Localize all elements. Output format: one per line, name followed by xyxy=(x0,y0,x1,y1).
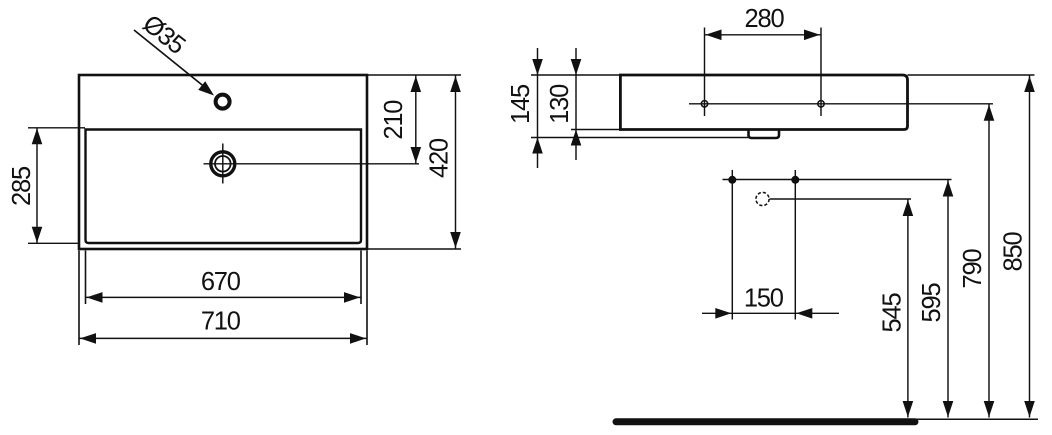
dim 420 line xyxy=(455,75,457,249)
svg-text:850: 850 xyxy=(1000,232,1028,272)
svg-text:210: 210 xyxy=(380,100,408,140)
dim 710 arrow left xyxy=(80,333,96,344)
svg-text:545: 545 xyxy=(879,293,907,333)
extension top left of profile xyxy=(531,74,620,76)
leader arrowhead xyxy=(198,81,214,95)
dim 850 arrow down xyxy=(1024,401,1035,417)
drain inner circle xyxy=(215,156,231,172)
dim 145 arrow top xyxy=(532,59,543,75)
dim 710 extension left xyxy=(78,251,80,346)
dim 710 extension right xyxy=(366,251,368,346)
dim 595 line xyxy=(947,180,949,418)
dim 710 arrow right xyxy=(350,333,366,344)
dim 280 arrow right xyxy=(804,30,820,41)
mounting hole left xyxy=(701,101,707,107)
dim 130 arrow top xyxy=(571,59,582,75)
svg-text:595: 595 xyxy=(918,283,946,323)
dim 790 arrow down xyxy=(984,401,995,417)
dim 545 line xyxy=(907,199,909,418)
svg-text:285: 285 xyxy=(8,166,36,206)
basin profile xyxy=(620,75,907,130)
dim 130 line xyxy=(575,48,577,160)
dim 280 arrow left xyxy=(706,30,722,41)
dim 790 line xyxy=(988,104,990,418)
dim 595 arrow down xyxy=(943,401,954,417)
dim 280 extension left xyxy=(704,28,706,117)
drain outer circle xyxy=(211,152,235,176)
dim 545 arrow down xyxy=(903,401,914,417)
dim 150 arrow right xyxy=(796,308,812,319)
dim 420 arrow down xyxy=(450,232,461,248)
dim 545 arrow up xyxy=(903,200,914,216)
supply drop line left xyxy=(731,170,733,320)
dim 850 arrow up xyxy=(1024,76,1035,92)
extension tab bottom 145 xyxy=(531,137,748,139)
supply dot left xyxy=(728,176,736,184)
dim 145 line xyxy=(537,48,539,168)
dim 710 line xyxy=(79,337,367,339)
dim 595 arrow up xyxy=(943,181,954,197)
dim 670 arrow right xyxy=(344,292,360,303)
extension bottom right of left view xyxy=(367,248,461,250)
extension top right of left view xyxy=(367,74,461,76)
svg-text:150: 150 xyxy=(744,285,784,313)
dim 145 arrow bottom xyxy=(532,138,543,154)
supply level line xyxy=(723,179,952,181)
waste level line xyxy=(770,198,912,200)
floor line thin xyxy=(914,418,1038,420)
waste outlet dashed circle xyxy=(756,192,769,205)
dim 670 extension left xyxy=(85,251,87,305)
drain tab xyxy=(749,130,780,139)
svg-text:790: 790 xyxy=(959,249,987,289)
dim 790 arrow up xyxy=(984,105,995,121)
dim 285 extension bottom xyxy=(28,242,79,244)
svg-text:710: 710 xyxy=(201,307,241,335)
dim 670 extension right xyxy=(360,251,362,305)
dim 130 arrow bottom xyxy=(571,130,582,146)
dim 210 arrow down xyxy=(411,147,422,163)
extension underside 130 xyxy=(571,129,620,131)
dim 280 extension right xyxy=(820,28,822,117)
extension top right of profile xyxy=(908,74,1035,76)
dim 210 line xyxy=(415,75,417,164)
dim 280 line xyxy=(705,34,822,36)
leader line Ø35 xyxy=(134,30,204,87)
dim 670 arrow left xyxy=(87,292,103,303)
dim 285 extension top xyxy=(28,127,85,129)
dim 150 line xyxy=(702,312,839,314)
dim 210 arrow up xyxy=(411,76,422,92)
drain centerline to 210 dim xyxy=(204,163,420,165)
mounting holes centerline xyxy=(689,103,993,105)
dim 285 arrow up xyxy=(32,128,43,144)
dim 285 arrow down xyxy=(32,227,43,243)
dim 670 line xyxy=(86,296,362,298)
faucet hole circle xyxy=(216,95,230,109)
mounting hole right xyxy=(818,101,824,107)
drain crosshair vertical xyxy=(222,144,224,184)
svg-text:130: 130 xyxy=(546,84,574,124)
dim 150 arrow left xyxy=(715,308,731,319)
svg-text:145: 145 xyxy=(507,84,535,124)
supply drop line right xyxy=(794,170,796,320)
svg-text:280: 280 xyxy=(745,5,785,33)
basin inner bowl rect xyxy=(86,130,362,244)
supply dot right xyxy=(791,176,799,184)
svg-text:670: 670 xyxy=(201,268,241,296)
dim 285 line xyxy=(36,128,38,244)
svg-text:420: 420 xyxy=(426,138,454,178)
dim 850 line xyxy=(1029,75,1031,418)
dim 420 arrow up xyxy=(450,76,461,92)
floor line thick xyxy=(616,418,915,425)
basin outer rect xyxy=(79,75,367,249)
